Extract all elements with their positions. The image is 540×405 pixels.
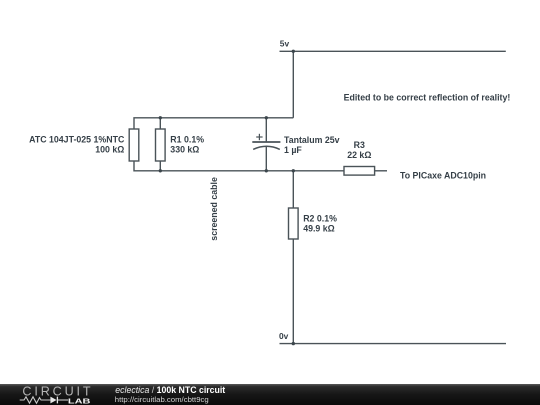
svg-text:R2 0.1%: R2 0.1% (303, 214, 337, 224)
wire R2 branch (292, 171, 294, 208)
wire top node line (134, 118, 293, 129)
resistor R3 (344, 167, 375, 176)
wire bottom rail 0v (280, 343, 507, 345)
wire NTC bottom lead (134, 161, 344, 171)
capacitor C1 plate (252, 141, 280, 143)
svg-text:100 kΩ: 100 kΩ (95, 144, 124, 154)
node junction 5v (292, 50, 295, 53)
svg-text:Edited to be correct reflectio: Edited to be correct reflection of reali… (344, 93, 511, 103)
footer bar (0, 384, 540, 405)
node junction R1 bottom (159, 169, 162, 172)
resistor R2 (289, 208, 299, 239)
svg-text:ATC 104JT-025 1%NTC: ATC 104JT-025 1%NTC (29, 134, 125, 144)
node junction R1 top (159, 116, 162, 119)
wire R1 top lead (159, 118, 161, 129)
svg-text:0v: 0v (279, 331, 289, 341)
svg-text:screened cable: screened cable (209, 177, 219, 241)
node junction R2 top (292, 169, 295, 172)
resistor R1 (156, 129, 166, 161)
svg-text:eclectica / 100k NTC circuit: eclectica / 100k NTC circuit (115, 385, 225, 395)
svg-text:R1 0.1%: R1 0.1% (170, 134, 204, 144)
svg-text:22 kΩ: 22 kΩ (347, 150, 371, 160)
svg-text:49.9 kΩ: 49.9 kΩ (303, 224, 335, 234)
node junction cap top (265, 116, 268, 119)
svg-text:Tantalum 25v: Tantalum 25v (284, 135, 340, 145)
wire cap bottom lead (265, 147, 267, 171)
wire cap top lead (265, 118, 267, 142)
node junction 0v (292, 342, 295, 345)
wire R3 output (375, 170, 387, 172)
resistor NTC ATC 104JT-025 (129, 129, 139, 161)
wire R1 bottom lead (159, 161, 161, 171)
node junction cap bottom (265, 169, 268, 172)
capacitor C1 plus sign (256, 134, 262, 140)
wire top rail 5v (280, 50, 506, 52)
svg-text:1 µF: 1 µF (284, 145, 302, 155)
svg-text:LAB: LAB (68, 397, 91, 405)
svg-text:http://circuitlab.com/cbtt9cg: http://circuitlab.com/cbtt9cg (115, 395, 209, 404)
capacitor C1 curved plate (253, 146, 280, 149)
svg-text:To PICaxe ADC10pin: To PICaxe ADC10pin (400, 171, 486, 181)
logo resistor zigzag (20, 397, 51, 403)
logo lead to LAB (57, 399, 68, 401)
wire 5v drop (292, 51, 294, 118)
svg-text:330 kΩ: 330 kΩ (170, 144, 199, 154)
logo diode (50, 397, 56, 404)
svg-text:5v: 5v (280, 38, 290, 48)
wire R2 to 0v (292, 239, 294, 344)
svg-text:R3: R3 (354, 140, 365, 150)
